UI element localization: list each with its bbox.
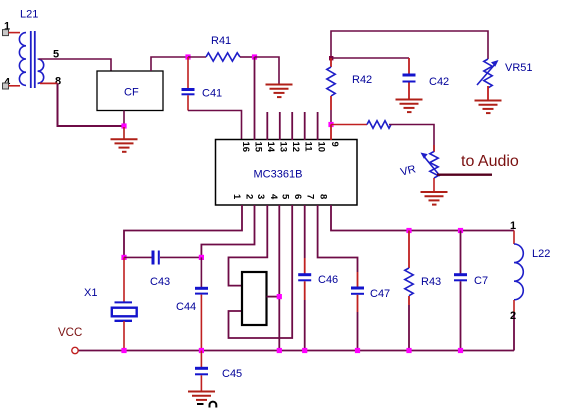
node C41 top junction [185, 54, 190, 59]
node rail C44/C45 [199, 348, 204, 353]
wire pin13 stub [279, 112, 281, 140]
svg-text:13: 13 [278, 142, 289, 153]
svg-text:2: 2 [510, 310, 516, 322]
svg-text:MC3361B: MC3361B [254, 169, 303, 181]
wire top net R42 to VR51 [331, 31, 488, 59]
wire pin7 to C47 [318, 205, 358, 272]
node X1 top junction [121, 255, 126, 260]
svg-text:C42: C42 [429, 76, 449, 88]
wire CF top-right to R41 node [151, 57, 188, 71]
wire L21 pin1 stub [9, 32, 21, 34]
svg-text:VR51: VR51 [505, 62, 533, 74]
svg-text:11: 11 [303, 142, 314, 153]
capacitor C41 [182, 57, 195, 111]
node R41 right junction [252, 54, 257, 59]
L21 terminal pin 4 [3, 83, 9, 89]
svg-text:5: 5 [280, 194, 291, 200]
VCC terminal [72, 347, 78, 353]
svg-text:9: 9 [329, 142, 340, 147]
potentiometer VR [421, 145, 441, 192]
wire resistor to VR top [389, 125, 434, 152]
svg-text:VCC: VCC [58, 327, 82, 339]
capacitor C47 [351, 272, 364, 351]
node rail pin4 [277, 348, 282, 353]
wire junction to ground corner [255, 57, 280, 84]
wire pin9 junction to audio resistor [331, 124, 367, 126]
svg-text:14: 14 [265, 142, 276, 153]
svg-text:L22: L22 [532, 248, 550, 260]
ground below C42 [396, 100, 423, 113]
partial caption text [197, 402, 216, 408]
wire L21 pin4 stub [9, 85, 21, 87]
resistor R43 [405, 231, 413, 351]
svg-text:1: 1 [231, 194, 242, 200]
wire pin11 stub [304, 112, 306, 140]
resistor R41 [206, 53, 240, 61]
svg-text:6: 6 [292, 194, 303, 199]
node CF-ground junction [121, 123, 126, 128]
svg-text:L21: L21 [20, 9, 38, 21]
wire CF bottom stub [123, 111, 125, 128]
wire pin15 from R41 node [254, 57, 256, 140]
ground at R41 net [266, 85, 293, 98]
node pin9 junction [328, 122, 333, 127]
svg-text:3: 3 [255, 194, 266, 199]
potentiometer VR51 [477, 59, 499, 100]
svg-text:4: 4 [268, 194, 279, 200]
node C7 top junction [458, 228, 463, 233]
wire node to R41 [188, 56, 206, 58]
capacitor C42 [403, 58, 416, 99]
wire R42 top to C42 [331, 57, 409, 59]
svg-text:15: 15 [253, 142, 264, 153]
svg-text:C44: C44 [176, 301, 196, 313]
svg-text:to Audio: to Audio [461, 153, 519, 170]
wire pin9 stub [330, 125, 332, 141]
node rail X1 [121, 348, 126, 353]
svg-text:R43: R43 [421, 276, 441, 288]
wire C41 bottom to IC pin16 [188, 111, 242, 141]
svg-text:10: 10 [316, 142, 327, 153]
node rail C47 [355, 348, 360, 353]
wire pin8 down [58, 83, 125, 126]
wire pin2 to C44 node [201, 205, 254, 257]
wire L21 pin8 to ground node [40, 82, 58, 84]
wire pin3 to quad coil [229, 205, 268, 286]
svg-text:R42: R42 [352, 74, 372, 86]
node rail C46 [302, 348, 307, 353]
wire to CF ground [123, 127, 125, 139]
ground below VR51 [475, 101, 502, 114]
L21 terminal pin 1 [3, 30, 9, 36]
svg-text:C46: C46 [318, 274, 338, 286]
wire pin14 stub [266, 112, 268, 140]
node R42 top junction [329, 56, 333, 60]
IC U1 MC3361B [216, 140, 358, 206]
wire pin10 stub [317, 112, 319, 140]
quad coil box [242, 272, 267, 325]
wire pin5 to quad coil [229, 205, 293, 338]
bottom rail wire [78, 350, 514, 352]
ground below CF [111, 139, 138, 152]
capacitor C44 [195, 257, 208, 350]
svg-text:C45: C45 [222, 368, 242, 380]
wire quad coil to pin4 net [267, 296, 280, 298]
wire pin4 to bottom rail [278, 205, 280, 351]
svg-text:C47: C47 [370, 288, 390, 300]
ground below C45 [188, 392, 215, 400]
svg-text:C41: C41 [202, 88, 222, 100]
wire R41 to junction [240, 56, 255, 58]
crystal X1 [112, 257, 137, 350]
node R43 top junction [406, 228, 411, 233]
svg-text:1: 1 [510, 220, 516, 232]
wire pin1 to X1 node [124, 205, 242, 257]
svg-text:CF: CF [124, 87, 139, 99]
svg-text:8: 8 [318, 194, 329, 199]
wire VR wiper to audio [437, 173, 492, 175]
capacitor C43 [124, 251, 201, 265]
node rail R43 [406, 348, 411, 353]
inductor L22 [514, 231, 523, 351]
svg-text:12: 12 [290, 142, 301, 153]
wire L21 pin5 to CF [39, 59, 111, 71]
ground below VR [421, 192, 448, 205]
svg-text:7: 7 [305, 194, 316, 199]
svg-text:C7: C7 [474, 275, 488, 287]
capacitor C45 [195, 351, 208, 392]
wire pin8 to L22 top [331, 205, 514, 231]
node rail C7 [458, 348, 463, 353]
resistor (audio series) [367, 121, 391, 129]
svg-text:16: 16 [240, 142, 251, 153]
node quad coil junction [277, 294, 282, 299]
transformer L21 [19, 31, 43, 88]
resistor R42 [327, 58, 335, 125]
capacitor C46 [298, 258, 311, 351]
svg-text:X1: X1 [84, 287, 97, 299]
CF box [97, 71, 163, 111]
node C44 top junction [199, 255, 204, 260]
wire pin12 stub [291, 112, 293, 140]
wire pin6 upper [304, 205, 306, 258]
capacitor C7 [454, 231, 467, 351]
svg-text:R41: R41 [211, 35, 231, 47]
svg-text:C43: C43 [150, 276, 170, 288]
svg-text:2: 2 [244, 194, 255, 199]
